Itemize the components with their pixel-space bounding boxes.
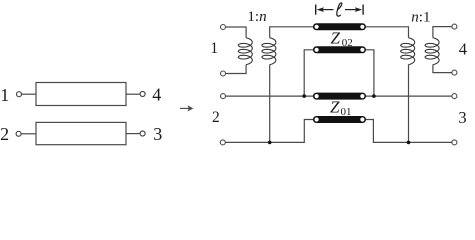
inductor L1 primary of 1:n [238,38,252,65]
svg-text:1: 1 [210,40,218,57]
transmission line Z02 lower bar [313,46,366,53]
wire top line left (secondary top corner to line bar Z02a) [270,27,314,38]
arrow implies [180,105,193,111]
dimension length ell [316,5,363,15]
svg-text:Z: Z [331,28,341,47]
terminals of right circuit [220,24,457,145]
terminal 4 top [452,24,457,29]
junction dot middle-left [302,94,306,98]
wire port4 lead [126,93,140,95]
svg-text:4: 4 [459,40,467,59]
box network N_b [36,122,126,144]
svg-text:Z: Z [330,98,340,117]
wire port2 lead [21,133,36,135]
terminal 1 bottom [221,71,226,76]
junction dot bottom-left [268,141,272,145]
transmission line Z02 upper bar [313,23,366,30]
svg-text:3: 3 [153,124,162,144]
terminal 1 top [221,25,226,30]
terminal 4 bottom [452,70,457,75]
wire top line right (bar to right transformer secondary top) [366,27,409,38]
wire middle line right segment [366,95,452,97]
svg-text:01: 01 [341,106,352,118]
wire bottom line left segment [226,120,314,143]
transmission line Z01 upper bar [313,93,366,100]
svg-text:2: 2 [212,109,220,126]
wire right secondary bottom drop [408,65,410,143]
inductor L4 primary of n:1 [425,38,439,65]
wire secondary bottom drop to bottom line [269,65,271,143]
wire middle line left segment [226,95,313,97]
wire port3 lead [126,133,140,135]
terminal circle 4 [140,92,145,97]
svg-text:3: 3 [458,108,466,127]
label ell [337,3,342,16]
wire right primary top to terminal 4 [433,27,452,38]
transmission line Z01 lower bar [313,116,366,123]
wire terminal1 to primary top [226,27,246,38]
wire bottom line right segment [366,120,452,143]
svg-text:1:n: 1:n [247,9,266,25]
junction dot middle-right [372,94,376,98]
wire port1 lead [22,93,36,95]
svg-text:02: 02 [342,37,353,49]
wire Z02 stub left [304,50,313,96]
wire primary bottom to terminal1b [226,65,246,74]
svg-text:1: 1 [0,85,9,105]
terminal circle 2 [16,131,21,136]
wire right primary bottom to terminal 4b [433,65,452,73]
terminal circle 1 [17,92,22,97]
terminal 3 top [452,94,457,99]
inductor L2 secondary of 1:n [262,38,276,65]
terminal 2 top [221,94,226,99]
inductor L3 secondary of n:1 [401,38,415,65]
terminal 2 bottom [220,140,225,145]
terminal 3 bottom [452,140,457,145]
junction dot bottom-right [407,141,411,145]
svg-text:n:1: n:1 [411,9,430,25]
box network N_a [36,83,126,106]
svg-text:2: 2 [0,124,9,144]
svg-text:4: 4 [152,85,161,105]
wire Z02 stub right [366,50,374,96]
terminal circle 3 [140,131,145,136]
